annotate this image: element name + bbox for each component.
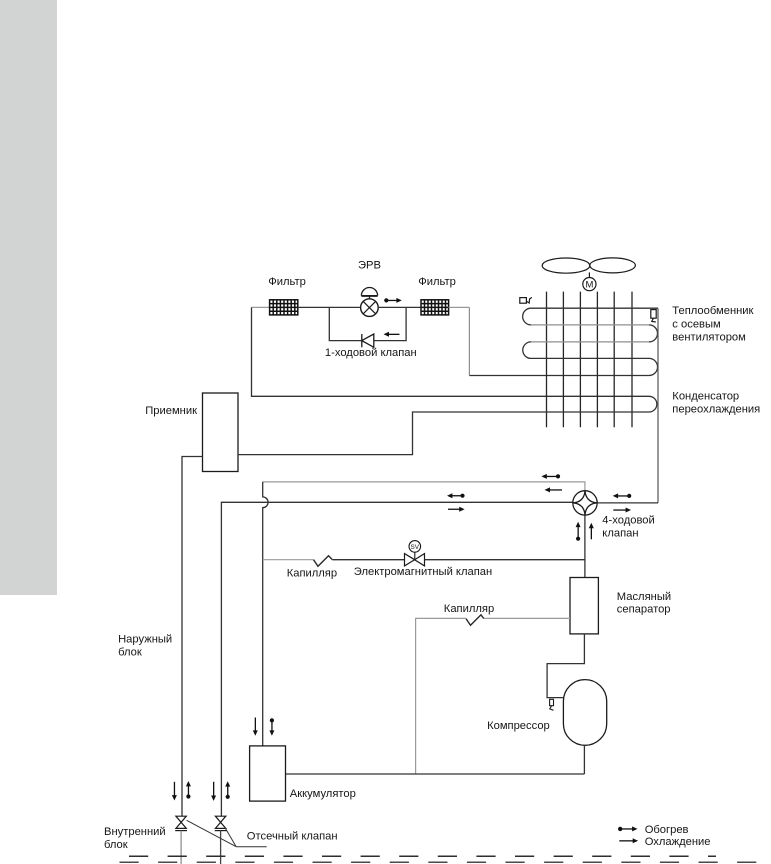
oil separator [570,578,598,634]
cooling arrow (right) below left port line mid [448,507,465,512]
legend cooling arrow [619,838,638,843]
svg-text:Обогрев: Обогрев [645,824,689,836]
gray sidebar [0,0,57,595]
check valve (1-way valve) [362,334,374,347]
coil left U-turn rows 1-2 [523,308,531,325]
cooling arrow (down) line B [211,782,216,801]
heating arrow (dot,left) right of valve [613,493,632,498]
heating flow arrow (dot, right) above main line [384,298,402,303]
service port (coil top-left) [520,297,532,303]
svg-text:SV: SV [411,544,420,551]
4-way valve [573,491,597,515]
coil tube row 2 [531,324,649,326]
filter F1 (left) [270,300,298,315]
solenoid valve (bowtie) [405,554,425,566]
coil right U-turn rows 6-7 [649,396,657,412]
svg-text:вентилятором: вентилятором [672,332,746,344]
svg-text:Конденсатор: Конденсатор [672,391,739,403]
wire below shut-off valve 2 [220,831,222,864]
coil fin 2 [562,292,564,428]
accumulator Аккумулятор [250,746,286,801]
coil fin 4 [596,292,598,428]
coil tube row 5 [469,375,649,377]
wire left drop to subcool condenser row [252,307,650,396]
wire capillary to solenoid valve [332,559,404,561]
wire below shut-off valve 1 [180,831,182,864]
fan motor stem [588,272,590,277]
svg-text:Компрессор: Компрессор [487,720,550,732]
wire main line EEV to right filter [378,306,421,308]
coil fin 1 [546,292,548,428]
svg-text:Фильтр: Фильтр [268,276,306,288]
svg-text:блок: блок [118,646,142,658]
coil tube row 1 [531,307,658,309]
heating arrow (dot,up) below valve left [576,522,581,541]
svg-text:ЭРВ: ЭРВ [358,260,381,272]
heating arrow (dot,up) line B [225,781,230,799]
coil right vertical to 4-way valve [657,308,659,503]
wire right drop from filter [468,307,470,375]
wire main liquid line left segment [252,306,270,308]
heating arrow (dot,left) above suction line near valve [541,474,560,479]
svg-text:Аккумулятор: Аккумулятор [290,788,356,800]
wire main line right filter to corner [449,306,470,308]
compressor shell [563,680,606,746]
coil tube row 4 [531,357,649,359]
svg-text:M: M [585,280,593,291]
wire receiver left to outdoor line A [182,457,203,817]
svg-text:Капилляр: Капилляр [287,567,337,579]
svg-text:Масляный: Масляный [617,591,671,603]
wire capillary 2 line (separator to suction) [484,617,570,619]
svg-text:4-ходовой: 4-ходовой [602,514,654,526]
EEV valve ЭРВ (circle with X and dome) [361,288,379,317]
svg-text:Фильтр: Фильтр [418,276,456,288]
wire solenoid valve to compressor riser [425,559,585,561]
leader lines to Отсечный клапан label [187,820,267,846]
filter F2 (right) [421,300,449,315]
svg-text:Внутренний: Внутренний [104,826,166,838]
svg-text:Наружный: Наружный [118,634,172,646]
wire receiver right to coil row 7 [238,412,649,455]
wire bottom run to accumulator [286,773,585,775]
wire 4-way valve right port line [597,502,658,504]
cooling arrow (right) below right port line [613,508,631,513]
wire suction drop with hop over liquid line [263,482,268,746]
cooling flow arrow (left) above bypass [384,332,400,337]
service port (coil top-right) [651,310,656,322]
svg-text:Капилляр: Капилляр [444,603,494,615]
wire capillary 2 left + drop [416,618,466,774]
svg-text:Отсечный клапан: Отсечный клапан [247,830,338,842]
svg-text:блок: блок [104,839,128,851]
coil left U-turn rows 3-4 [523,342,531,359]
receiver Приемник [203,393,239,472]
svg-text:Электромагнитный клапан: Электромагнитный клапан [354,566,492,578]
svg-text:клапан: клапан [602,527,638,539]
coil tube row 3 [531,341,649,343]
wire 4-way valve left port line [221,502,573,816]
fan blade right ellipse [590,258,636,273]
4-way valve suction line (top) [263,482,585,491]
wire compressor discharge drop [583,745,585,774]
svg-text:с осевым: с осевым [672,319,720,331]
coil right U-turn rows 2-3 [649,325,658,342]
cooling arrow (down) above accumulator [253,718,258,736]
wire check-valve bypass loop [329,307,406,340]
svg-text:сепаратор: сепаратор [617,604,671,616]
coil fin 3 [579,292,581,428]
fan blade left ellipse [542,258,590,273]
wire separator outlet to compressor inlet [547,634,584,698]
svg-text:Охлаждение: Охлаждение [645,836,711,848]
heating arrow (dot,left) above left port line mid [447,493,465,498]
oil return orifice symbol [550,699,554,710]
fan motor M circle [583,278,596,291]
svg-text:Приемник: Приемник [145,405,197,417]
coil fin 5 [613,292,615,428]
shut-off valve 1 [175,816,187,830]
shut-off valve 2 [215,816,227,830]
wire solenoid branch left segment [263,559,314,561]
heating arrow (dot,down) above accumulator [269,718,274,735]
wire 4-way valve bottom port to oil separator [584,515,586,578]
legend heating arrow [618,826,638,831]
wire main line filter to EEV [298,306,361,308]
unit boundary dashed line [129,855,716,857]
page edge dashed line [120,861,771,863]
cooling arrow (down) line A [172,782,177,801]
coil fin 6 [631,292,633,428]
svg-text:Теплообменник: Теплообменник [672,305,753,317]
cooling arrow (up) below valve right [589,523,594,540]
cooling arrow (left) below suction line near valve [545,487,563,492]
capillary symbol 1 [314,556,333,567]
capillary symbol 2 [466,615,484,626]
svg-text:переохлаждения: переохлаждения [672,403,760,415]
coil right U-turn rows 4-5 [649,358,658,375]
solenoid SV pilot circle [409,541,421,560]
heating arrow (dot,up) line A [186,781,191,799]
svg-text:1-ходовой клапан: 1-ходовой клапан [325,347,417,359]
